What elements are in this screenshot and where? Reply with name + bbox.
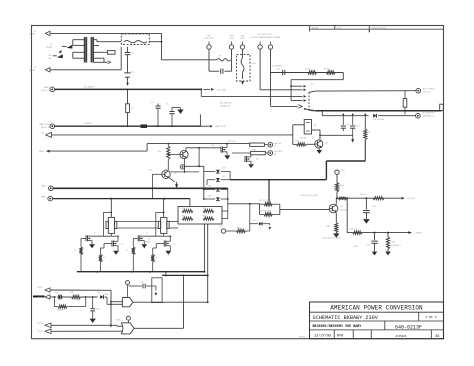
svg-text:+24VDC: +24VDC — [415, 233, 423, 235]
svg-text:OSC2: OSC2 — [38, 297, 44, 299]
svg-text:BUS 2 J6: BUS 2 J6 — [41, 127, 50, 129]
svg-text:AC OUT AC OUT: AC OUT AC OUT — [258, 33, 273, 36]
svg-text:R40: R40 — [70, 292, 73, 294]
svg-text:2N4124: 2N4124 — [340, 210, 348, 212]
svg-text:D40: D40 — [55, 292, 58, 294]
svg-text:R17 15K: R17 15K — [228, 141, 236, 143]
svg-text:C40: C40 — [96, 308, 99, 310]
svg-text:D21: D21 — [222, 176, 225, 178]
svg-text:D22: D22 — [208, 186, 211, 188]
svg-text:ACIN: ACIN — [30, 69, 36, 72]
svg-text:AC LINE: AC LINE — [218, 88, 227, 91]
svg-text:4L 250VAC: 4L 250VAC — [272, 65, 283, 68]
svg-text:CONN TO TRANSFORMER OF MAINS: CONN TO TRANSFORMER OF MAINS — [251, 36, 282, 39]
svg-text:BATT: BATT — [44, 86, 50, 89]
svg-text:BATT RTN: BATT RTN — [40, 123, 50, 126]
svg-text:R7 22: R7 22 — [324, 68, 330, 70]
svg-text:12/27/95: 12/27/95 — [314, 334, 331, 339]
svg-text:R22: R22 — [182, 216, 185, 218]
svg-text:R28 4.7K 1/4W: R28 4.7K 1/4W — [259, 211, 271, 213]
svg-text:SW ON: SW ON — [274, 143, 282, 145]
svg-text:D25: D25 — [253, 220, 256, 222]
svg-text:D23: D23 — [208, 195, 211, 197]
svg-text:DESCRIPTION: DESCRIPTION — [372, 27, 387, 29]
svg-text:14 AWG: 14 AWG — [84, 122, 92, 125]
svg-text:SW OFF: SW OFF — [274, 151, 283, 153]
svg-text:HOT J4: HOT J4 — [423, 92, 431, 94]
svg-text:R41 1K: R41 1K — [57, 309, 64, 311]
svg-text:OSC4: OSC4 — [38, 331, 44, 333]
svg-text:LED: LED — [48, 58, 52, 60]
svg-text:XFMR: XFMR — [46, 47, 52, 49]
svg-text:R33 2.2: R33 2.2 — [350, 228, 358, 230]
svg-text:R23: R23 — [203, 216, 206, 218]
svg-text:250VAC 4A: 250VAC 4A — [220, 104, 230, 107]
svg-text:BATT +: BATT + — [41, 184, 49, 187]
svg-text:R20: R20 — [182, 208, 185, 210]
svg-text:4-100: 4-100 — [353, 246, 359, 248]
svg-text:ACIN106: ACIN106 — [396, 335, 407, 338]
svg-text:RELAY: RELAY — [300, 137, 307, 140]
svg-text:C42: C42 — [140, 282, 143, 284]
svg-text:NEUTRAL J5: NEUTRAL J5 — [423, 114, 436, 117]
svg-text:U2A: U2A — [104, 293, 109, 296]
svg-text:500-0043 1: 500-0043 1 — [391, 245, 402, 247]
svg-text:4-100_040_C6_5047 1: 4-100_040_C6_5047 1 — [322, 238, 341, 240]
svg-text:R27 4.7K 1/4W: R27 4.7K 1/4W — [259, 200, 271, 202]
svg-text:XFMR: XFMR — [145, 242, 151, 244]
svg-text:D41: D41 — [97, 292, 100, 294]
svg-text:R31 10: R31 10 — [360, 194, 367, 196]
svg-text:OSC3: OSC3 — [38, 323, 44, 325]
svg-text:AC OUTPUT: AC OUTPUT — [423, 111, 436, 114]
svg-text:BUS 1 J3: BUS 1 J3 — [41, 90, 50, 92]
svg-text:U2B: U2B — [116, 320, 121, 322]
svg-text:REV A: REV A — [312, 26, 319, 29]
svg-text:ACIN1: ACIN1 — [299, 336, 306, 339]
svg-text:R21: R21 — [203, 208, 206, 210]
svg-text:38: 38 — [435, 335, 439, 339]
svg-text:R6 22: R6 22 — [305, 68, 311, 70]
svg-text:SCHEMATIC BKBABY 230V: SCHEMATIC BKBABY 230V — [313, 315, 379, 321]
svg-text:OSC1: OSC1 — [38, 287, 44, 289]
svg-text:BK350MI/BK500MI VDE BABY: BK350MI/BK500MI VDE BABY — [313, 324, 363, 329]
svg-text:250V 15 TR: 250V 15 TR — [204, 38, 214, 40]
svg-text:AC LINE OUT: AC LINE OUT — [220, 101, 233, 104]
svg-text:RFN: RFN — [337, 335, 343, 339]
svg-text:AMERICAN POWER CONVERSION: AMERICAN POWER CONVERSION — [330, 305, 423, 312]
svg-text:BATT RTN: BATT RTN — [216, 125, 226, 128]
svg-text:D20: D20 — [222, 168, 225, 170]
svg-text:+12VDC: +12VDC — [407, 198, 415, 200]
svg-text:D11 1N4148: D11 1N4148 — [373, 119, 385, 121]
svg-text:NEUT: NEUT — [39, 151, 45, 153]
svg-text:3 OF 3: 3 OF 3 — [426, 316, 437, 319]
svg-text:S-100_100_10_0047: S-100_100_10_0047 — [300, 195, 318, 197]
svg-text:ECO: ECO — [337, 27, 342, 29]
svg-text:BATT -: BATT - — [41, 195, 48, 198]
svg-text:6L 14AWG: 6L 14AWG — [84, 86, 94, 89]
svg-text:640-0213F: 640-0213F — [395, 324, 422, 330]
svg-text:AC OUTPUT: AC OUTPUT — [423, 88, 436, 91]
